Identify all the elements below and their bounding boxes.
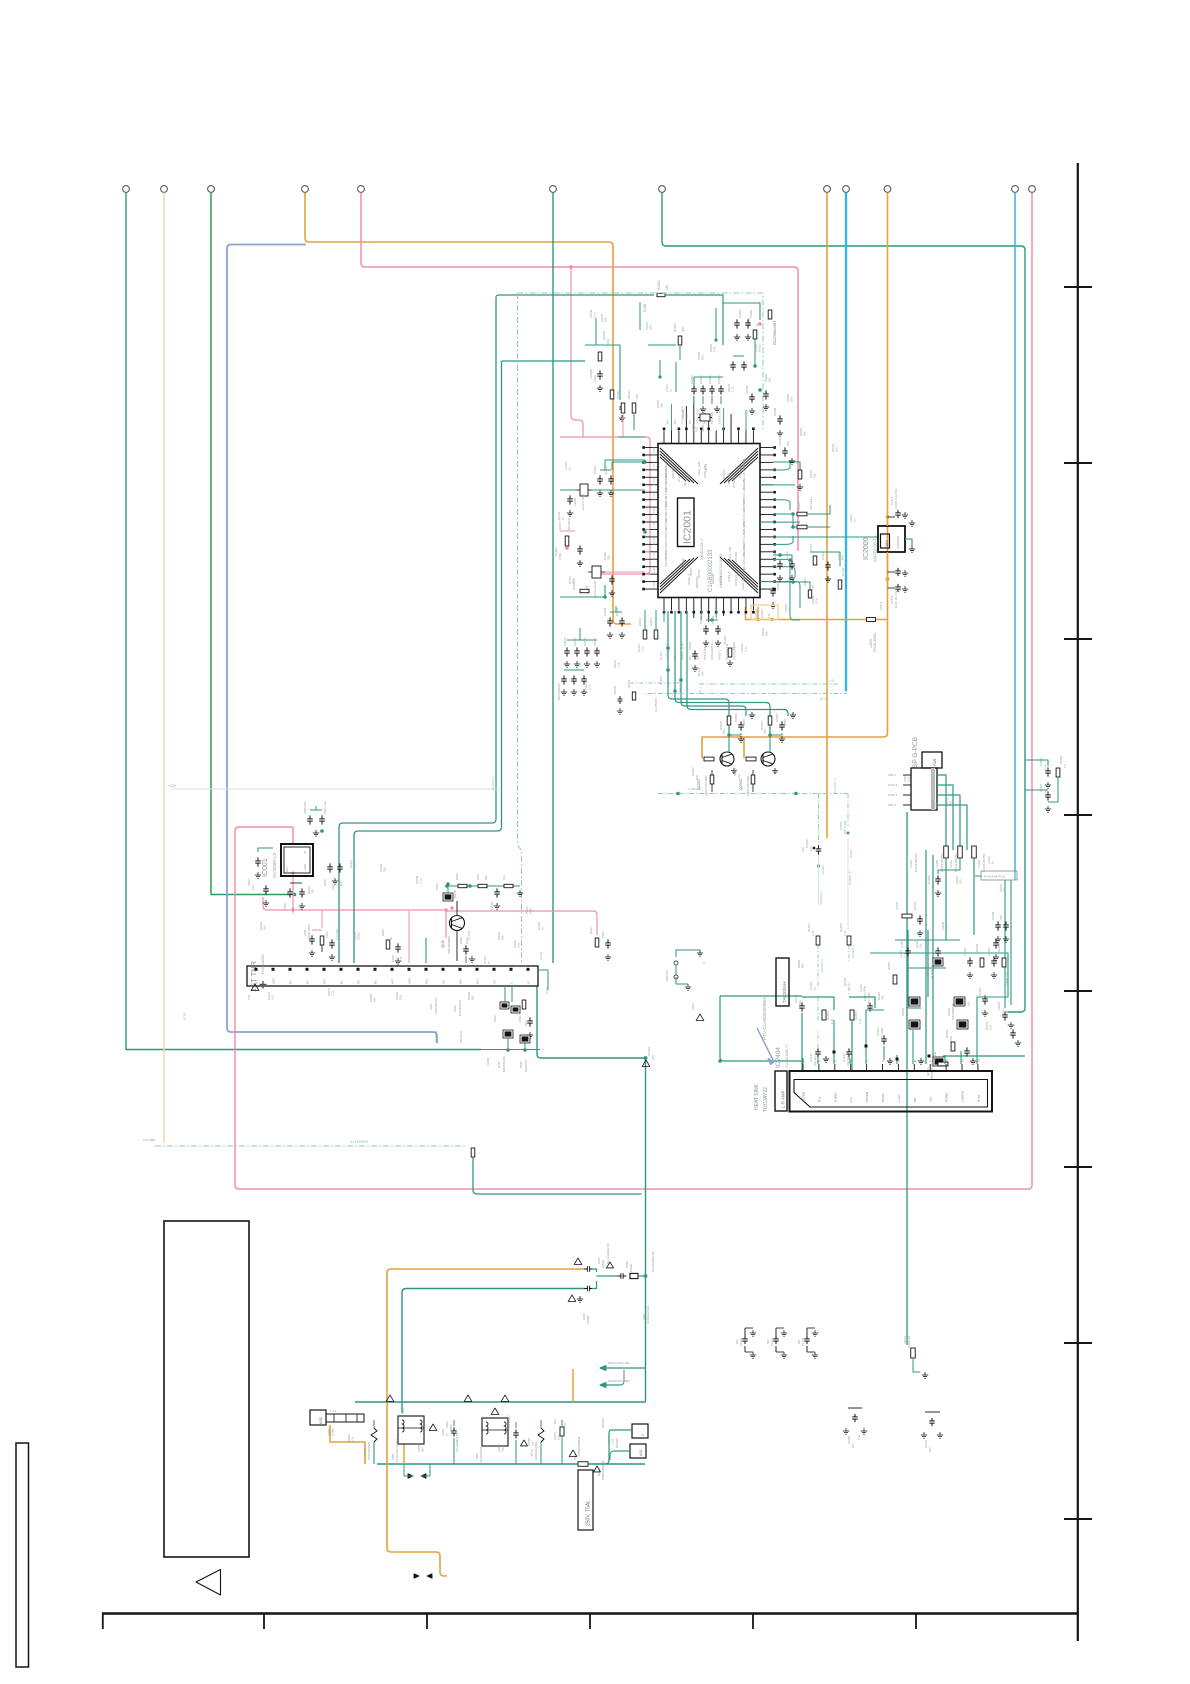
svg-text:DACK: DACK — [689, 566, 693, 576]
dash-dot line y1146 AI DOWNS — [155, 1145, 466, 1147]
svg-text:L2452: L2452 — [977, 860, 981, 868]
capacitor C836 on teal rail y1288 — [584, 1288, 587, 1290]
wire orange horizontal y619 to IC2001 bottom pins with inductor L2908 — [876, 619, 888, 621]
svg-text:CL977: CL977 — [659, 651, 663, 660]
transistor Q016 tuner — [450, 916, 465, 931]
svg-text:CL978: CL978 — [659, 676, 663, 685]
power cap C806b — [515, 1429, 517, 1433]
wire pink terminal x1032 down left along y1189 up to IC001 loop — [235, 193, 1032, 1190]
cluster below IC2001 mid - caps y615-640 — [609, 617, 611, 621]
svg-text:+12V: +12V — [168, 784, 177, 788]
teal joints below-left of chip — [560, 596, 605, 598]
svg-text:2SB709AMRS: 2SB709AMRS — [447, 936, 451, 954]
power fuse F801 — [578, 1462, 588, 1467]
svg-text:33p: 33p — [500, 1447, 504, 1452]
svg-text:KMB2G0668638: KMB2G0668638 — [601, 1460, 605, 1480]
svg-text:GUARD_A: GUARD_A — [833, 778, 837, 793]
svg-text:C2018: C2018 — [603, 607, 607, 616]
tuner pins and labels — [255, 968, 258, 971]
svg-text:AVSSD1: AVSSD1 — [732, 476, 736, 488]
JA81400 test points — [674, 961, 678, 965]
svg-text:EXC6LBR35N: EXC6LBR35N — [982, 854, 986, 872]
svg-text:B88P: B88P — [742, 719, 746, 726]
svg-text:MA2S111: MA2S111 — [567, 517, 571, 530]
cluster right of IC2001 - R2125 pair — [797, 512, 807, 516]
tuner up-wires — [408, 911, 410, 963]
svg-text:0.1u: 0.1u — [1043, 764, 1047, 770]
svg-text:STAL_OUT: STAL_OUT — [695, 408, 699, 424]
wire teal y1056 right mesh to x1025 — [943, 1055, 1025, 1057]
svg-text:TUC0AY22: TUC0AY22 — [763, 1087, 769, 1112]
svg-text:100u: 100u — [798, 1000, 802, 1007]
sheet frame left margin bar — [16, 1443, 29, 1667]
svg-text:50V 0.33u: 50V 0.33u — [843, 820, 847, 834]
svg-text:KTAL-1N: KTAL-1N — [738, 466, 742, 479]
svg-text:ARA_1N1: ARA_1N1 — [728, 546, 732, 560]
svg-text:50V: 50V — [797, 1339, 801, 1344]
svg-text:MA2S11100L: MA2S11100L — [502, 1055, 506, 1072]
svg-text:R2059: R2059 — [691, 767, 695, 776]
svg-text:IC2001: IC2001 — [682, 510, 694, 544]
svg-text:C2116: C2116 — [821, 551, 825, 560]
cluster right of IC2001 - caps C2486a — [773, 462, 800, 470]
junction dots on audio bundle — [666, 646, 670, 650]
svg-text:100: 100 — [530, 1441, 534, 1446]
svg-text:2SD1768TWBL: 2SD1768TWBL — [746, 775, 750, 796]
svg-text:SCAS: SCAS — [664, 536, 668, 544]
svg-text:C816 50V: C816 50V — [518, 1009, 522, 1022]
svg-text:1B0 4: 1B0 4 — [888, 803, 896, 807]
svg-text:LCC-46-D01 KU/8V3: LCC-46-D01 KU/8V3 — [395, 1437, 399, 1464]
svg-text:1.6k: 1.6k — [830, 1018, 834, 1024]
transistor Q2003 2SD1768TWBL — [746, 757, 756, 761]
terminal circle at x=827 — [824, 186, 831, 193]
svg-text:TA8200AH: TA8200AH — [782, 982, 787, 1003]
cluster top-right of IC2001 — [723, 303, 760, 320]
svg-text:KMB2G0668638: KMB2G0668638 — [577, 1436, 581, 1456]
svg-text:10k: 10k — [501, 935, 505, 940]
cluster left of IC2001 - resistors R2013 R2014 — [621, 403, 625, 413]
svg-text:C2059: C2059 — [490, 901, 494, 910]
power teal bus top y1402 — [355, 1401, 646, 1403]
svg-text:16V: 16V — [989, 1025, 993, 1030]
svg-text:C2441: C2441 — [924, 1439, 928, 1448]
svg-text:P GND: P GND — [945, 1092, 949, 1102]
wire teal corner x402 y1288 to transformer T801 — [402, 1289, 585, 1414]
svg-text:33k: 33k — [607, 555, 611, 560]
svg-text:1000p: 1000p — [330, 1428, 334, 1436]
component at x915 bottom — [911, 1348, 916, 1358]
yellow annotation box below chip right — [751, 605, 778, 620]
svg-text:VB.LT: VB.LT — [704, 464, 708, 472]
tuner cap C819 cluster mid — [386, 940, 390, 949]
svg-text:T-S1-B10: T-S1-B10 — [742, 529, 746, 542]
svg-text:1u 6.3v: 1u 6.3v — [467, 930, 471, 940]
orange junction dots y619 — [756, 618, 759, 621]
svg-text:VERT-1N+: VERT-1N+ — [718, 409, 722, 424]
IC2001 left pins — [645, 447, 658, 449]
svg-text:0.1u: 0.1u — [857, 1434, 861, 1440]
svg-text:UV: UV — [493, 980, 497, 984]
svg-text:R2014: R2014 — [627, 390, 631, 399]
cluster left of IC2001 - R2015 pink dot — [565, 536, 569, 546]
svg-text:Not amplified DC: Not amplified DC — [651, 1251, 655, 1272]
svg-text:L in: L in — [849, 1097, 853, 1102]
cluster x855 y1410 — [848, 1407, 862, 1409]
svg-text:C808 0.22u: C808 0.22u — [507, 1415, 511, 1430]
svg-text:ENG1DL56V: ENG1DL56V — [434, 997, 438, 1014]
caps right of IC001 group C810 — [329, 863, 331, 867]
svg-text:C2081: C2081 — [327, 1428, 331, 1436]
svg-text:8T39: 8T39 — [183, 1013, 187, 1020]
svg-text:R2066: R2066 — [527, 1438, 531, 1446]
svg-text:16V: 16V — [517, 943, 521, 948]
svg-text:C808: C808 — [283, 903, 287, 910]
svg-text:0.1u: 0.1u — [903, 952, 907, 958]
regulator IC001 AN78M05-LD — [281, 844, 313, 876]
wire teal pair top-right down to tuner pins — [339, 300, 496, 963]
svg-text:R2116: R2116 — [803, 577, 807, 586]
svg-text:OUT: OUT — [285, 866, 289, 872]
connector A32 — [310, 1410, 326, 1425]
teal stub y361 left — [502, 360, 586, 362]
sheet frame right border line — [1077, 163, 1079, 1641]
svg-text:GUARD_B: GUARD_B — [848, 871, 852, 885]
svg-text:MUTE: MUTE — [881, 1094, 885, 1103]
svg-text:C2004: C2004 — [708, 375, 712, 384]
svg-text:C2449: C2449 — [991, 911, 995, 920]
svg-text:C812: C812 — [325, 931, 329, 938]
svg-text:C2011: C2011 — [593, 465, 597, 474]
svg-text:CL191: CL191 — [841, 567, 845, 576]
right mesh far parts x965-1005 — [969, 957, 971, 961]
svg-text:13k: 13k — [606, 339, 610, 344]
svg-text:BROWN: BROWN — [601, 1418, 605, 1428]
dash-dot vertical x848 with cap C2461 — [847, 794, 849, 827]
svg-text:CL135: CL135 — [652, 522, 656, 530]
svg-text:0.01: 0.01 — [907, 776, 911, 782]
svg-text:R2076: R2076 — [607, 1436, 611, 1444]
svg-text:S GND: S GND — [833, 1092, 837, 1102]
wire orange transformer drops — [403, 1444, 405, 1464]
svg-text:250V, T5AL: 250V, T5AL — [586, 1500, 592, 1526]
regulator IC2000 AN7BL08-TA — [878, 526, 905, 552]
svg-text:AFT: AFT — [391, 978, 395, 984]
caps below IC001 — [289, 888, 291, 892]
svg-text:PTV-C1AB00000664: PTV-C1AB00000664 — [762, 997, 767, 1040]
IC2001 bottom pins — [663, 598, 665, 611]
teal run from right pins down x790 — [773, 559, 800, 620]
svg-text:33p: 33p — [1003, 887, 1007, 892]
three cap pairs bottom middle — [744, 1328, 746, 1336]
teal links into x1045 caps — [1025, 760, 1048, 766]
svg-text:100: 100 — [695, 775, 699, 780]
svg-text:B5: B5 — [374, 980, 378, 984]
svg-text:C820 50V: C820 50V — [303, 801, 307, 814]
svg-text:1u: 1u — [991, 860, 995, 864]
svg-text:R2913: R2913 — [638, 617, 642, 626]
power cap C805 — [453, 1427, 455, 1431]
svg-text:IC001: IC001 — [262, 858, 269, 877]
mid right standalone caps x1045 y765 — [1047, 767, 1049, 771]
wire pink along IC2001 left pins — [560, 437, 650, 574]
svg-text:C2442: C2442 — [895, 901, 899, 910]
svg-text:VT: VT — [527, 980, 531, 984]
wire cyan from terminal x846 down to y691 — [845, 193, 847, 692]
svg-text:R2462: R2462 — [997, 943, 1001, 952]
svg-text:680: 680 — [471, 995, 475, 1000]
blank note rectangle bottom-left — [164, 1221, 249, 1557]
svg-text:R2013: R2013 — [616, 390, 620, 399]
wire pink from terminal x361 right along y267 down at x798 — [361, 193, 798, 552]
svg-text:BT: BT — [306, 980, 310, 984]
svg-text:SAM_M: SAM_M — [741, 579, 745, 590]
svg-text:D010: D010 — [435, 883, 439, 890]
svg-text:CL134: CL134 — [652, 507, 656, 515]
svg-text:0.01: 0.01 — [271, 994, 275, 1000]
svg-text:GUARD-A: GUARD-A — [491, 776, 495, 790]
Q2003 RC network — [768, 716, 772, 725]
svg-text:2SD1768TWBL: 2SD1768TWBL — [704, 775, 708, 796]
svg-text:C810: C810 — [323, 879, 327, 886]
svg-text:C2033: C2033 — [760, 609, 764, 618]
svg-text:0.01u: 0.01u — [299, 903, 303, 910]
terminal circle at x=553 — [550, 186, 557, 193]
svg-text:L2450: L2450 — [935, 860, 939, 868]
wire teal from terminal x126 down then right at y1050 — [126, 193, 481, 1050]
terminal circle at x=361 — [358, 186, 365, 193]
svg-text:T01: T01 — [247, 994, 251, 1000]
svg-text:BROWN: BROWN — [615, 1438, 619, 1448]
svg-text:C: C — [702, 962, 706, 964]
svg-text:COMMON: COMMON — [896, 536, 900, 549]
wires up from amp pins — [802, 1058, 804, 1064]
svg-text:R2036: R2036 — [673, 323, 677, 332]
terminal circle at x=164 — [161, 186, 168, 193]
teal audio bundle from chip bottom — [668, 611, 729, 735]
svg-text:33p: 33p — [660, 403, 664, 408]
svg-text:L007: L007 — [429, 1003, 433, 1010]
connector A31 upper — [632, 1424, 648, 1438]
svg-text:2.2: 2.2 — [1063, 764, 1067, 768]
svg-text:EXC6LBR35N: EXC6LBR35N — [914, 854, 918, 872]
svg-text:CL975/976: CL975/976 — [654, 697, 658, 712]
TA8200AH boxed label — [776, 958, 789, 1006]
svg-text:15k: 15k — [665, 284, 669, 290]
svg-text:1 2 3: 1 2 3 — [330, 1409, 337, 1413]
svg-text:JP2451: JP2451 — [647, 1046, 651, 1056]
svg-text:50V: 50V — [766, 1339, 770, 1344]
svg-text:1u: 1u — [568, 466, 572, 470]
svg-text:R020: R020 — [519, 1061, 523, 1068]
tuner D010 diode near transistor — [443, 893, 453, 901]
power section warning triangles — [386, 1395, 394, 1401]
svg-text:CL139: CL139 — [652, 582, 656, 590]
svg-text:1000u: 1000u — [629, 1264, 633, 1272]
svg-text:4.7k: 4.7k — [350, 1436, 354, 1442]
svg-text:SE1 BAM: SE1 BAM — [681, 558, 685, 572]
terminal circle at x=1015 — [1012, 186, 1019, 193]
svg-text:50V: 50V — [701, 355, 705, 360]
svg-text:7.50k: 7.50k — [558, 552, 562, 560]
svg-text:3-ETR-1/CL-0: 3-ETR-1/CL-0 — [700, 539, 704, 560]
svg-text:16V: 16V — [788, 607, 792, 612]
inductor L2908 EXC6LSR35L — [867, 618, 876, 622]
svg-text:B1: B1 — [340, 980, 344, 984]
svg-text:EXC6LSR35L: EXC6LSR35L — [873, 632, 877, 652]
upper mesh small parts — [893, 975, 897, 984]
svg-text:NPSUD: NPSUD — [727, 472, 731, 484]
svg-text:D2u: D2u — [553, 1418, 557, 1424]
svg-text:50V: 50V — [931, 883, 935, 888]
resistor R2036 near dash box top — [678, 336, 682, 345]
svg-text:15k: 15k — [383, 867, 387, 872]
orange junction dots on IC2000 rail — [886, 515, 890, 519]
svg-text:DADA: DADA — [697, 568, 701, 578]
svg-text:EXC6LBR35N: EXC6LBR35N — [940, 854, 944, 872]
cluster above IC2001 - A3 right caps — [732, 361, 734, 365]
terminal circle at x=126 — [123, 186, 130, 193]
1ST TNR tuner block — [247, 966, 538, 986]
pink hook wires on IC2001 left pins — [645, 529, 650, 531]
svg-text:R out: R out — [976, 1095, 980, 1102]
svg-text:15k: 15k — [701, 671, 705, 676]
terminal circle at x=1032 — [1029, 186, 1036, 193]
svg-text:CL194: CL194 — [821, 865, 825, 874]
wire cyan terminal x1015 down to label box — [1014, 193, 1016, 873]
cluster left of IC2001 - L2005 coil group — [580, 484, 588, 496]
caps above IC001 — [309, 815, 311, 819]
svg-text:C2445 25V: C2445 25V — [1005, 972, 1009, 986]
svg-text:B3: B3 — [289, 980, 293, 984]
svg-text:C2023: C2023 — [688, 641, 692, 650]
svg-text:50V: 50V — [841, 555, 845, 560]
amp input network left branch — [720, 996, 803, 1061]
terminal circle at x=887.5 — [884, 186, 891, 193]
svg-text:25V: 25V — [399, 995, 403, 1000]
svg-text:56k: 56k — [768, 377, 772, 382]
dash-dot shield box tuner area — [518, 293, 764, 430]
svg-text:R2449: R2449 — [933, 1051, 937, 1060]
svg-text:0SA0: 0SA0 — [664, 544, 668, 552]
cluster x932 y1412 — [925, 1411, 940, 1413]
Q2002 RC network — [727, 716, 731, 725]
svg-text:R011: R011 — [497, 1061, 501, 1068]
svg-text:4.7k: 4.7k — [737, 774, 741, 780]
transistor Q2002 2SD1768TWBL — [702, 757, 703, 759]
svg-text:C2014: C2014 — [563, 637, 567, 646]
svg-text:C2068: C2068 — [734, 713, 738, 722]
svg-text:L2453: L2453 — [909, 860, 913, 868]
resistor zigzag RT801 — [371, 1428, 377, 1442]
svg-text:ENG36A06G: ENG36A06G — [261, 954, 265, 974]
wire pink extension to x597 cluster — [446, 911, 597, 935]
faint 12V rail y789 — [172, 788, 500, 790]
amp input network mid branch — [849, 997, 875, 1008]
IC2001 corner pin fans — [660, 448, 698, 484]
svg-text:R2025: R2025 — [602, 331, 606, 340]
svg-text:C2017: C2017 — [593, 637, 597, 646]
terminal circle at x=846 — [843, 186, 850, 193]
svg-text:MA111: MA111 — [453, 889, 457, 898]
svg-text:100: 100 — [685, 413, 689, 418]
svg-text:C2055: C2055 — [417, 1444, 421, 1452]
cluster above IC2001 - caps row A2 — [693, 385, 695, 389]
svg-text:25V: 25V — [790, 397, 794, 402]
svg-text:FILTER: FILTER — [802, 1091, 806, 1102]
svg-text:WA2S56R34L: WA2S56R34L — [905, 1002, 909, 1020]
svg-text:GND 2: GND 2 — [888, 783, 898, 787]
svg-text:C1AB00002133: C1AB00002133 — [708, 549, 714, 592]
svg-text:0.1u: 0.1u — [945, 924, 949, 930]
svg-text:R in: R in — [817, 1096, 821, 1102]
cluster above IC2001 - caps and resistors A1 — [619, 345, 621, 400]
capacitor C837 on orange rail y1269 — [584, 1268, 587, 1270]
svg-text:BT2: BT2 — [476, 978, 480, 984]
svg-text:ERD31EW292: ERD31EW292 — [367, 1441, 371, 1460]
cluster small right x700 y692 — [619, 696, 621, 699]
svg-text:4.7k: 4.7k — [815, 598, 819, 604]
teal pair below label box — [1004, 880, 1006, 1008]
svg-text:IC2404: IC2404 — [775, 1047, 782, 1068]
svg-text:100: 100 — [835, 447, 839, 452]
svg-text:BM: BM — [459, 979, 463, 984]
svg-text:1u: 1u — [487, 960, 491, 964]
resistor cluster at pink drop x597 — [595, 938, 599, 947]
op IC2001 QFP body — [658, 444, 760, 598]
wire orange horizontal y1269 to cap C837 — [391, 1268, 585, 1270]
svg-text:S0S-LIN-L: S0S-LIN-L — [742, 550, 746, 565]
svg-text:AVSSD: AVSSD — [734, 551, 738, 562]
svg-text:NC2: NC2 — [683, 480, 687, 486]
svg-text:K7BA: K7BA — [449, 1425, 453, 1432]
svg-text:R2485: R2485 — [1059, 755, 1063, 764]
inductor trio L2450 L2451 L2452 — [944, 846, 949, 858]
svg-text:1u: 1u — [669, 388, 673, 392]
svg-text:C2009: C2009 — [773, 407, 777, 416]
svg-text:15V: 15V — [563, 1423, 567, 1428]
svg-text:400: 400 — [681, 327, 685, 332]
svg-text:R2456: R2456 — [887, 961, 891, 970]
svg-text:Vcc: Vcc — [929, 1096, 933, 1102]
svg-text:Not amplified DC: Not amplified DC — [455, 1432, 459, 1452]
svg-text:GUARD-A: GUARD-A — [820, 959, 824, 972]
resistor R2460 and caps right mesh — [951, 1042, 955, 1051]
svg-text:EXC6LD86V: EXC6LD86V — [307, 924, 311, 940]
svg-text:1B0 1: 1B0 1 — [888, 773, 896, 777]
svg-text:L-R AMP: L-R AMP — [781, 1090, 786, 1108]
svg-text:C1AA000677: C1AA000677 — [784, 1043, 789, 1068]
svg-text:L2031: L2031 — [441, 1428, 445, 1436]
dash-dot TP41 line — [700, 684, 838, 694]
sheet frame bottom border tick marks — [102, 1613, 104, 1629]
IC2000 right ground — [905, 539, 912, 546]
svg-text:B88P: B88P — [783, 719, 787, 726]
svg-text:C2003: C2003 — [699, 375, 703, 384]
svg-text:0.89A13A: 0.89A13A — [907, 1336, 911, 1348]
svg-text:3.3k: 3.3k — [809, 846, 813, 852]
svg-text:R021: R021 — [589, 927, 593, 934]
terminal circle at x=211 — [208, 186, 215, 193]
svg-text:1.6k: 1.6k — [811, 930, 815, 936]
svg-text:A0SA0: A0SA0 — [664, 527, 668, 537]
IC2001 top pins — [663, 431, 665, 444]
svg-text:ELB: ELB — [339, 881, 343, 886]
caps near IC2000 bottom — [897, 568, 899, 571]
svg-text:C=u0y: C=u0y — [539, 951, 543, 960]
svg-text:#1 4L: #1 4L — [820, 697, 828, 701]
cap C2488 under inductors — [937, 875, 939, 879]
